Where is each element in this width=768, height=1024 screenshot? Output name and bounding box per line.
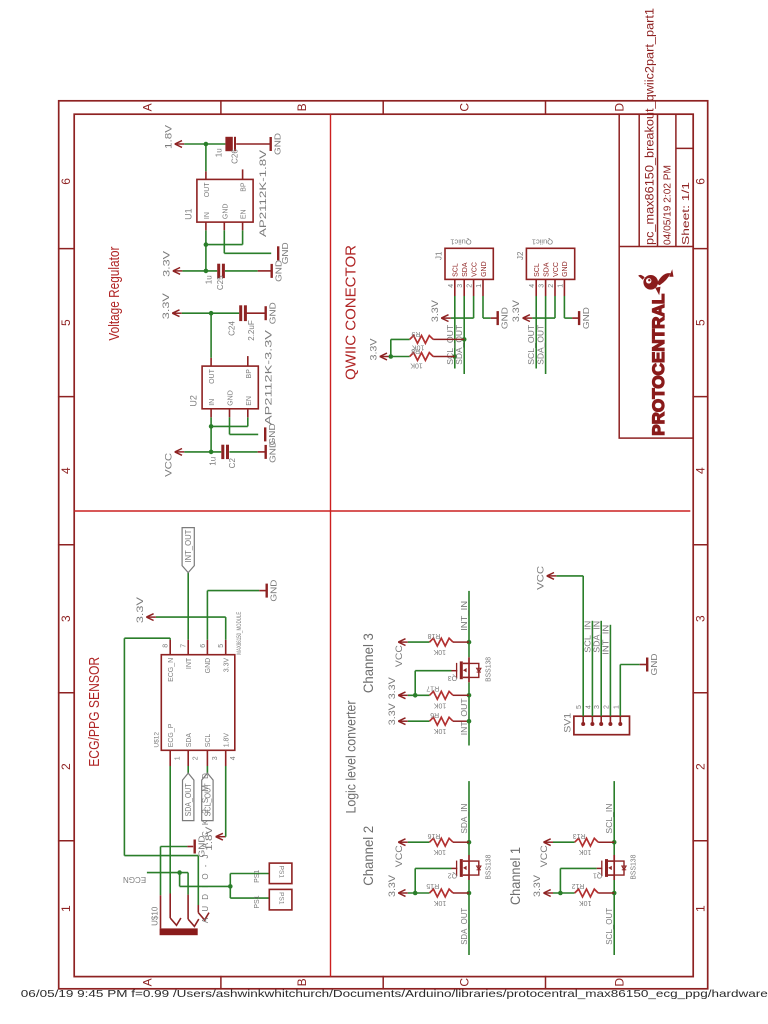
svg-text:Logic level converter: Logic level converter [344, 700, 359, 813]
svg-text:GND: GND [562, 261, 569, 277]
svg-text:SCL_OUT: SCL_OUT [605, 908, 614, 945]
svg-text:8: 8 [163, 644, 170, 648]
svg-text:BP: BP [246, 369, 253, 379]
svg-text:10K: 10K [578, 848, 591, 855]
svg-text:GND: GND [481, 261, 488, 277]
svg-text:1u: 1u [209, 457, 218, 466]
svg-text:INT_OUT: INT_OUT [184, 530, 193, 563]
svg-text:R18: R18 [427, 632, 440, 639]
svg-text:3.3V: 3.3V [387, 677, 397, 699]
svg-text:Q2: Q2 [448, 872, 457, 879]
svg-text:GND: GND [269, 580, 279, 602]
svg-text:R12: R12 [571, 882, 584, 889]
svg-text:1u: 1u [215, 148, 224, 157]
svg-text:SDA_OUT: SDA_OUT [455, 325, 464, 365]
svg-text:5: 5 [218, 644, 225, 648]
svg-text:ECG_P: ECG_P [168, 723, 175, 747]
svg-text:6: 6 [59, 178, 73, 185]
svg-text:SCL: SCL [453, 263, 460, 277]
svg-text:3.3V: 3.3V [224, 657, 231, 672]
svg-text:IN: IN [209, 399, 216, 406]
svg-text:Channel 3: Channel 3 [361, 633, 376, 693]
svg-text:SDA_OUT: SDA_OUT [184, 783, 193, 816]
svg-text:SDA_IN: SDA_IN [592, 621, 601, 653]
svg-text:INT_IN: INT_IN [460, 601, 469, 631]
svg-text:SDA_OUT: SDA_OUT [537, 325, 546, 365]
svg-text:3.3V: 3.3V [387, 703, 397, 725]
svg-text:D: D [612, 103, 626, 112]
svg-text:U1: U1 [183, 208, 193, 220]
svg-text:OUT: OUT [204, 182, 211, 198]
svg-text:SDA: SDA [186, 733, 193, 748]
svg-text:GND: GND [268, 302, 278, 324]
svg-text:ECG/PPG SENSOR: ECG/PPG SENSOR [87, 657, 103, 767]
svg-text:R6: R6 [430, 711, 439, 718]
svg-text:SDA: SDA [543, 262, 550, 277]
svg-text:GND: GND [581, 307, 591, 329]
svg-text:VCC: VCC [535, 565, 545, 590]
svg-text:2: 2 [467, 284, 474, 288]
svg-text:B: B [295, 978, 309, 986]
svg-text:10K: 10K [579, 899, 592, 906]
svg-text:Q3: Q3 [448, 674, 457, 681]
svg-text:3.3V: 3.3V [161, 251, 171, 277]
svg-text:3: 3 [59, 615, 73, 622]
svg-text:1u: 1u [205, 275, 214, 284]
svg-text:SCL: SCL [534, 263, 541, 277]
svg-text:PS1: PS1 [254, 895, 261, 908]
svg-text:SCL: SCL [205, 734, 212, 748]
svg-text:U$12: U$12 [154, 732, 161, 748]
svg-text:VCC: VCC [163, 452, 173, 477]
svg-text:4: 4 [694, 467, 708, 474]
svg-text:Sheet: 1/1: Sheet: 1/1 [680, 182, 692, 245]
svg-text:3: 3 [212, 756, 219, 760]
svg-text:06/05/19 9:45 PM f=0.99 /Use: 06/05/19 9:45 PM f=0.99 /Users/ashwinkwh… [21, 988, 768, 1000]
svg-text:7: 7 [181, 644, 188, 648]
svg-text:10K: 10K [410, 362, 423, 369]
svg-text:EN: EN [246, 396, 253, 406]
svg-text:R13: R13 [573, 832, 586, 839]
svg-text:10K: 10K [433, 701, 446, 708]
svg-text:GND: GND [222, 204, 229, 220]
svg-text:BSS138: BSS138 [486, 657, 493, 682]
svg-text:C2: C2 [228, 458, 237, 469]
svg-text:INT_OUT: INT_OUT [460, 698, 469, 735]
svg-text:ECG_N: ECG_N [168, 658, 175, 682]
svg-text:1: 1 [557, 284, 564, 288]
svg-text:2.2uF: 2.2uF [247, 320, 256, 341]
svg-text:BSS138: BSS138 [631, 854, 638, 879]
svg-text:3: 3 [694, 615, 708, 622]
svg-text:EN: EN [241, 209, 248, 219]
svg-text:1.8V: 1.8V [163, 125, 173, 149]
svg-text:6: 6 [200, 644, 207, 648]
svg-text:Channel 2: Channel 2 [361, 826, 376, 886]
svg-text:Channel 1: Channel 1 [508, 847, 523, 905]
svg-text:3.3V: 3.3V [430, 300, 440, 322]
svg-text:BP: BP [241, 182, 248, 192]
svg-text:AP2112K-1.8V: AP2112K-1.8V [258, 149, 269, 237]
svg-text:PS1: PS1 [278, 892, 285, 905]
svg-text:GND: GND [500, 307, 510, 329]
svg-text:R15: R15 [426, 882, 439, 889]
svg-text:VCC: VCC [394, 845, 404, 868]
svg-text:4: 4 [230, 756, 237, 760]
svg-text:SDA_OUT: SDA_OUT [460, 908, 469, 945]
svg-text:SDA: SDA [462, 262, 469, 277]
svg-text:D: D [612, 978, 626, 987]
svg-text:QWIIC CONECTOR: QWIIC CONECTOR [344, 245, 360, 380]
svg-text:GND: GND [228, 390, 235, 406]
svg-text:A: A [141, 978, 155, 986]
svg-text:3: 3 [539, 284, 546, 288]
svg-text:2: 2 [59, 763, 73, 770]
svg-text:1.8V: 1.8V [224, 733, 231, 748]
svg-text:10K: 10K [433, 899, 446, 906]
svg-text:GND: GND [274, 260, 284, 282]
svg-text:2: 2 [603, 705, 610, 709]
svg-text:R9: R9 [411, 330, 420, 337]
svg-text:10K: 10K [433, 727, 446, 734]
svg-text:PS1: PS1 [278, 866, 285, 879]
svg-text:C: C [457, 978, 471, 987]
svg-text:VCC: VCC [471, 262, 478, 277]
svg-text:10K: 10K [412, 343, 425, 350]
svg-text:VCC: VCC [553, 262, 560, 277]
svg-text:J1: J1 [435, 251, 444, 260]
svg-text:4: 4 [529, 284, 536, 288]
svg-text:1: 1 [175, 756, 182, 760]
svg-text:C24: C24 [228, 321, 237, 336]
svg-text:04/05/19 2:02 PM: 04/05/19 2:02 PM [662, 165, 674, 245]
svg-text:INT_IN: INT_IN [602, 625, 611, 655]
svg-text:SV1: SV1 [563, 713, 573, 733]
svg-text:U2: U2 [189, 395, 199, 407]
svg-text:PS1: PS1 [254, 870, 261, 883]
svg-text:BSS138: BSS138 [486, 854, 493, 879]
svg-text:R16: R16 [427, 832, 440, 839]
svg-text:Quiic1: Quiic1 [450, 237, 471, 246]
svg-text:3.3V: 3.3V [135, 597, 145, 623]
svg-text:6: 6 [694, 178, 708, 185]
svg-text:IN: IN [204, 212, 211, 219]
svg-text:ECGN: ECGN [123, 875, 146, 884]
svg-text:5: 5 [59, 319, 73, 326]
svg-text:4: 4 [59, 467, 73, 474]
svg-text:GND: GND [205, 658, 212, 674]
svg-text:1: 1 [476, 284, 483, 288]
svg-text:SCL_OUT: SCL_OUT [527, 325, 536, 365]
svg-text:OUT: OUT [209, 368, 216, 384]
svg-text:C26: C26 [231, 149, 240, 164]
svg-text:4: 4 [585, 705, 592, 709]
svg-text:5: 5 [694, 319, 708, 326]
svg-text:1: 1 [613, 705, 620, 709]
svg-text:10K: 10K [433, 648, 446, 655]
svg-text:4: 4 [448, 284, 455, 288]
svg-text:AP2112K-3.3V: AP2112K-3.3V [263, 329, 274, 425]
svg-text:pc_max86150_breakout_qwiic2par: pc_max86150_breakout_qwiic2part_part1 [645, 8, 657, 245]
svg-text:GND: GND [649, 654, 659, 676]
svg-text:10K: 10K [433, 848, 446, 855]
svg-text:C25: C25 [216, 275, 225, 290]
svg-text:PROTOCENTRAL: PROTOCENTRAL [650, 294, 668, 436]
svg-text:3.3V: 3.3V [161, 293, 171, 319]
svg-text:Voltage Regulator: Voltage Regulator [107, 246, 123, 340]
svg-text:SCL_IN: SCL_IN [584, 621, 593, 653]
svg-text:C: C [457, 103, 471, 112]
svg-text:GND: GND [268, 441, 278, 463]
svg-text:U$10: U$10 [151, 906, 160, 926]
svg-text:1: 1 [59, 905, 73, 912]
svg-text:3: 3 [457, 284, 464, 288]
svg-text:2: 2 [548, 284, 555, 288]
svg-text:3.3V: 3.3V [387, 875, 397, 897]
svg-text:Quiic1: Quiic1 [532, 237, 553, 246]
svg-text:Q1: Q1 [593, 872, 602, 879]
svg-text:3.3V: 3.3V [368, 339, 378, 361]
svg-text:3.3V: 3.3V [511, 300, 521, 322]
svg-text:INT: INT [186, 657, 193, 669]
svg-text:1: 1 [694, 905, 708, 912]
svg-text:3: 3 [594, 705, 601, 709]
svg-text:VCC: VCC [394, 645, 404, 668]
svg-text:2: 2 [193, 756, 200, 760]
svg-text:SCL_IN: SCL_IN [605, 803, 614, 833]
svg-text:GND: GND [273, 133, 283, 155]
svg-text:VCC: VCC [539, 845, 549, 868]
svg-text:A: A [141, 103, 155, 111]
svg-text:R17: R17 [426, 684, 439, 691]
svg-text:3.3V: 3.3V [532, 875, 542, 897]
svg-text:J2: J2 [516, 251, 525, 260]
svg-text:5: 5 [576, 705, 583, 709]
svg-text:2: 2 [694, 763, 708, 770]
svg-text:SDA_IN: SDA_IN [460, 803, 469, 833]
svg-text:MAX86150_MODULE: MAX86150_MODULE [236, 611, 243, 654]
svg-text:B: B [295, 103, 309, 111]
svg-text:SCL_OUT: SCL_OUT [446, 325, 455, 365]
